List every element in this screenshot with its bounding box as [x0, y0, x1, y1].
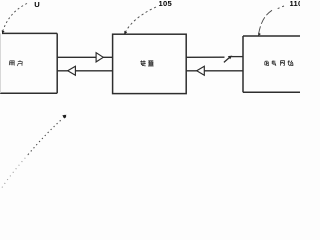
break arrow tip (filled) — [228, 56, 232, 60]
svg-text:U: U — [34, 0, 40, 9]
label 讯 — [272, 61, 276, 66]
leader arrowhead at box 105 top — [124, 31, 127, 35]
label 置 — [148, 61, 154, 66]
break diagonal stroke — [224, 57, 230, 62]
label 户 — [17, 60, 22, 66]
leader from 110 to box top (dashed) — [278, 6, 285, 9]
arrow left-pointing (open) on lower wire — [197, 66, 205, 75]
wire continue to box 110 — [232, 56, 244, 58]
svg-text:110: 110 — [290, 0, 301, 8]
box 105 (device 装置) — [113, 34, 187, 93]
leader arrowhead at box U corner — [2, 30, 5, 33]
wire: upper line box 105 -> box 110 with break symbol — [186, 56, 224, 58]
label 络 — [288, 61, 293, 66]
wire: upper line box U -> box 105 — [57, 56, 112, 58]
arrow left-pointing (open) on lower wire — [68, 66, 76, 75]
svg-text:105: 105 — [159, 0, 173, 8]
label 用 — [9, 61, 14, 66]
arrow right-pointing (open) on upper wire — [96, 53, 103, 62]
dotted annotation curve lower part — [2, 155, 28, 188]
label 网 — [280, 61, 284, 66]
dotted curve arrowhead (filled blob) — [63, 115, 66, 118]
leader from U to box corner (dashed) — [3, 4, 27, 32]
box U (user 用户) — [0, 33, 57, 93]
leader from 105 to box top (dashed) — [125, 7, 156, 33]
wire: lower line box 110 -> box 105 — [186, 70, 243, 72]
leader arrowhead at box 110 top — [258, 33, 261, 36]
dotted annotation curve upper part — [28, 119, 63, 155]
label 装 — [140, 60, 145, 66]
label 通 — [265, 60, 269, 65]
wire: lower line box 105 -> box U — [57, 70, 112, 72]
box 110 (network 通讯网络) — [243, 36, 301, 92]
